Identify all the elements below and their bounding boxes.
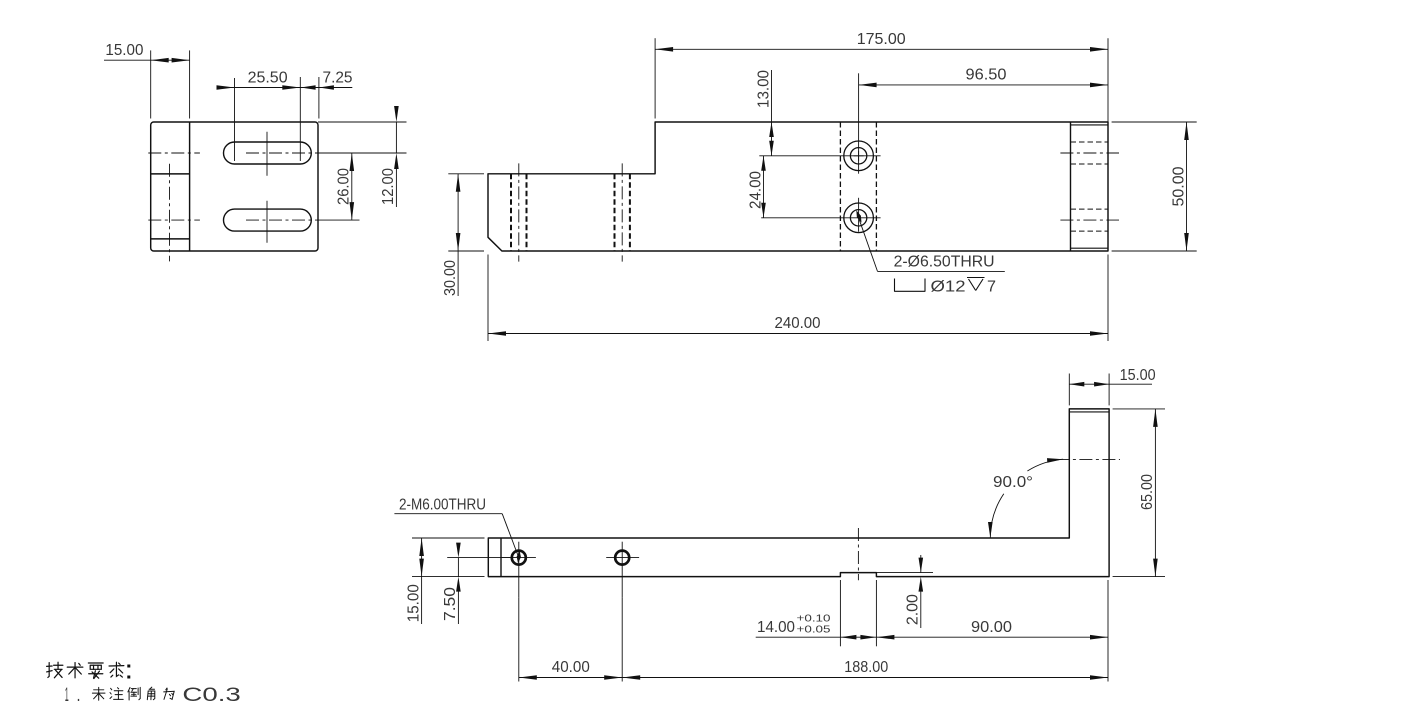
- view3 leg top chamfer line: [1069, 411, 1109, 413]
- note line2 unnoted chamfer C0.3: [65, 685, 241, 706]
- dim 7.50 text: [442, 587, 459, 621]
- dim 26.00 dimension line: [351, 153, 353, 220]
- dim 90.00 text: [971, 619, 1012, 636]
- svg-text:2-Ø6.50THRU: 2-Ø6.50THRU: [894, 254, 995, 271]
- leader hole note line: [859, 218, 1005, 272]
- view1 lower hole centerline horizontal: [148, 219, 200, 221]
- dim 2.00 extension line: [876, 572, 933, 574]
- view1 lower slot centerline vertical: [266, 201, 268, 243]
- view3 M6 hole1 circle: [512, 551, 526, 565]
- dim 7.50 dimension line: [457, 558, 459, 624]
- dim 25.50 extension lines: [235, 77, 301, 161]
- dim 240.00 dimension line: [488, 333, 1108, 335]
- dim 90deg arrows: [988, 458, 1063, 538]
- leader depth value text: [987, 278, 996, 295]
- dim 7.25 text: [323, 69, 353, 86]
- dim 2.00 dimension line: [920, 555, 922, 628]
- view1 upper slot centerline vertical: [266, 132, 268, 176]
- svg-text:90.0°: 90.0°: [993, 474, 1033, 491]
- dim 15.00 view1 arrows: [151, 58, 190, 63]
- dim 15.00 view1 dimension line: [104, 59, 190, 61]
- dim 50.00 dimension line: [1186, 122, 1188, 251]
- svg-text:15.00: 15.00: [1120, 367, 1156, 384]
- dim 188.00 arrows: [622, 675, 1108, 680]
- svg-text:240.00: 240.00: [775, 315, 821, 332]
- svg-text:50.00: 50.00: [1170, 166, 1187, 206]
- svg-text:13.00: 13.00: [755, 70, 772, 108]
- dim 90deg text: [993, 474, 1033, 491]
- dim 96.50 text: [966, 66, 1007, 83]
- view1 upper hole centerline horizontal: [148, 152, 200, 154]
- dim 30.00 text: [442, 260, 459, 296]
- view2 hole B centerline vertical: [858, 198, 860, 232]
- view1 flange outline: [151, 122, 318, 251]
- svg-text:12.00: 12.00: [380, 168, 397, 205]
- dim 13.00 text: [755, 70, 772, 108]
- view2 right end inner edge: [1070, 122, 1072, 251]
- svg-text:96.50: 96.50: [966, 66, 1007, 83]
- svg-text:40.00: 40.00: [552, 659, 590, 676]
- dim 90.00 extension line right: [1107, 580, 1109, 682]
- svg-text:7.25: 7.25: [323, 69, 353, 86]
- view1 lower slot centerline horizontal: [246, 219, 360, 221]
- dim 188.00 dimension line: [622, 677, 1108, 679]
- dim 14.00 tolerance text: [797, 613, 831, 636]
- dim 175.00 extension lines: [655, 38, 1108, 122]
- dim 12.00 text: [380, 168, 397, 205]
- dim 175.00 text: [857, 31, 906, 48]
- view3 M6 hole1 centerlines: [500, 542, 536, 598]
- dim 90.00 dimension line: [876, 636, 1108, 638]
- dim 25.50 dimension line: [219, 87, 353, 89]
- dim 15.00 view1 extension lines: [151, 50, 190, 118]
- view2 hole A counterbore circle: [844, 141, 874, 171]
- leader hole note text line2: [931, 278, 966, 295]
- view2 hole B counterbore circle: [844, 203, 874, 233]
- svg-text:24.00: 24.00: [747, 171, 764, 209]
- dim 7.25 arrows: [301, 85, 334, 89]
- dim 12.00 arrows: [394, 106, 399, 169]
- view2 right end hole2 centerline: [1060, 219, 1119, 221]
- dim 24.00 dimension line: [763, 156, 765, 218]
- dim 14.00 text: [757, 619, 795, 636]
- view1 lower slot outline: [224, 209, 312, 231]
- dim 96.50 dimension line: [859, 84, 1108, 86]
- view1 strip upper horizontal edge: [151, 173, 190, 175]
- svg-text:30.00: 30.00: [442, 260, 459, 296]
- view3 leg centerline horizontal: [1056, 458, 1120, 460]
- dim 13.00 arrows: [769, 122, 774, 156]
- view3 left end inner edge: [500, 538, 502, 577]
- dim 15.00 v3left text: [405, 584, 422, 622]
- leader M6 note text: [399, 497, 486, 514]
- dim 14.00 dimension line: [756, 636, 877, 638]
- view3 M6 hole2 centerlines: [606, 542, 639, 598]
- dim 40.00 extension via hole centerlines: [519, 598, 622, 682]
- view2 right end chamfer top: [1071, 124, 1109, 126]
- svg-text:7: 7: [987, 278, 996, 295]
- dim 30.00 dimension line: [457, 174, 459, 296]
- svg-text:2-M6.00THRU: 2-M6.00THRU: [399, 497, 486, 514]
- svg-text:1: 1: [65, 685, 69, 706]
- dim 50.00 arrows: [1184, 122, 1189, 251]
- view1 upper slot outline: [224, 142, 312, 164]
- dim 25.50 text: [248, 69, 288, 86]
- svg-text:7.50: 7.50: [442, 587, 459, 621]
- dim 175.00 dimension line: [655, 48, 1108, 50]
- dim 15.00 v3top dimension line: [1069, 383, 1152, 385]
- dim 240.00 extension lines: [488, 255, 1108, 342]
- dim 50.00 extension lines: [1112, 122, 1197, 251]
- dim 25.50 arrows: [217, 85, 301, 90]
- dim 12.00 dimension line: [395, 122, 397, 207]
- dim 13.00 dimension line: [771, 70, 773, 156]
- view2 right end chamfer bottom: [1071, 247, 1109, 249]
- dim 90.00 arrows: [876, 635, 1108, 640]
- view2 groove hidden line left: [839, 122, 841, 251]
- view2 hole B thru circle: [850, 210, 866, 226]
- dim 90deg arc: [990, 459, 1063, 538]
- dim 15.00 v3top extension lines: [1069, 374, 1109, 406]
- svg-text:25.50: 25.50: [248, 69, 288, 86]
- svg-text:2.00: 2.00: [905, 594, 922, 625]
- dim 40.00 arrows: [519, 675, 622, 680]
- dim 15.00 v3top arrows: [1069, 382, 1109, 387]
- view2 M6 hole2 centerline: [621, 163, 623, 261]
- view3 M6 hole2 circle: [615, 551, 629, 565]
- view2 hole A thru circle: [850, 148, 866, 164]
- view2 hole A centerline vertical: [858, 73, 860, 173]
- dim 15.00 v3left dimension line: [421, 538, 423, 624]
- dim 24.00 text: [747, 171, 764, 209]
- view1 strip centerline vertical: [169, 164, 171, 262]
- dim 65.00 dimension line: [1154, 409, 1156, 577]
- dim 50.00 text: [1170, 166, 1187, 206]
- view1 inner vertical edge: [189, 122, 191, 251]
- leader depth symbol: [967, 278, 985, 291]
- note line1 technical requirements heading: [47, 662, 131, 678]
- view2 right end hole1 centerline: [1060, 152, 1119, 154]
- view2 groove hidden line right: [875, 122, 877, 251]
- dim 30.00 arrows: [456, 174, 461, 251]
- leader counterbore symbol: [895, 279, 926, 292]
- dim 15.00 v3top text: [1120, 367, 1156, 384]
- view2 hole A center cross: [854, 151, 864, 161]
- dim 2.00 arrows: [919, 558, 924, 592]
- view2 right end hidden hole1 lines: [1071, 142, 1109, 164]
- dim 96.50 arrows: [859, 83, 1108, 88]
- svg-text:C0.3: C0.3: [182, 685, 240, 706]
- dim 65.00 text: [1139, 474, 1156, 510]
- svg-text:.: .: [77, 685, 81, 706]
- svg-text:188.00: 188.00: [844, 659, 888, 676]
- view3 part outline: [488, 409, 1109, 577]
- dim 40.00 dimension line: [519, 677, 622, 679]
- leader hole note text line1: [894, 254, 995, 271]
- dim 15.00 v3left arrows: [419, 538, 424, 577]
- dim 7.50 arrows: [456, 543, 461, 592]
- svg-text:+0.05: +0.05: [797, 624, 831, 636]
- svg-text:15.00: 15.00: [405, 584, 422, 622]
- leader M6 note arrow: [517, 551, 521, 564]
- dim 15.00 view1 text: [105, 42, 143, 59]
- dim 240.00 arrows: [488, 331, 1108, 336]
- view2 M6 hole1 hidden lines: [511, 174, 527, 251]
- dim 40.00 text: [552, 659, 590, 676]
- view2 hole B centerline horizontal: [761, 217, 880, 219]
- svg-text:65.00: 65.00: [1139, 474, 1156, 510]
- dim 65.00 extension lines: [1113, 409, 1165, 577]
- dim 26.00 arrows: [350, 153, 355, 220]
- dim 7.50 extension line: [447, 557, 512, 559]
- view2 part outline: [488, 122, 1108, 251]
- dim 240.00 text: [775, 315, 821, 332]
- view1 upper slot centerline horizontal: [246, 152, 407, 154]
- dim 7.25 extension line: [318, 77, 320, 119]
- dim 24.00 arrows: [761, 156, 766, 218]
- dim 175.00 arrows: [655, 47, 1108, 52]
- svg-text:14.00: 14.00: [757, 619, 795, 636]
- dim 14.00 arrows: [840, 635, 876, 640]
- view2 M6 hole2 hidden lines: [615, 174, 630, 251]
- view1 strip lower horizontal edge: [151, 238, 190, 240]
- view3 groove centerline: [857, 528, 859, 580]
- svg-text:15.00: 15.00: [105, 42, 143, 59]
- leader M6 note line: [394, 514, 518, 558]
- view2 right end hidden hole2 lines: [1071, 209, 1109, 231]
- svg-text:175.00: 175.00: [857, 31, 906, 48]
- leader hole note arrow: [856, 210, 861, 223]
- view2 hole A centerline horizontal: [759, 155, 880, 157]
- svg-text:Ø12: Ø12: [931, 278, 966, 295]
- dim 188.00 text: [844, 659, 888, 676]
- view2 M6 hole1 centerline: [518, 163, 520, 261]
- dim 14.00 extension lines: [840, 580, 876, 646]
- dim 2.00 text: [905, 594, 922, 625]
- dim 30.00 extension lines: [448, 174, 484, 251]
- dim 15.00 v3left extension lines: [412, 538, 485, 577]
- dim 26.00 text: [336, 168, 353, 205]
- svg-text:26.00: 26.00: [336, 168, 353, 205]
- dim 65.00 arrows: [1153, 409, 1158, 577]
- dim 12.00 extension line top: [318, 121, 407, 123]
- svg-text:90.00: 90.00: [971, 619, 1012, 636]
